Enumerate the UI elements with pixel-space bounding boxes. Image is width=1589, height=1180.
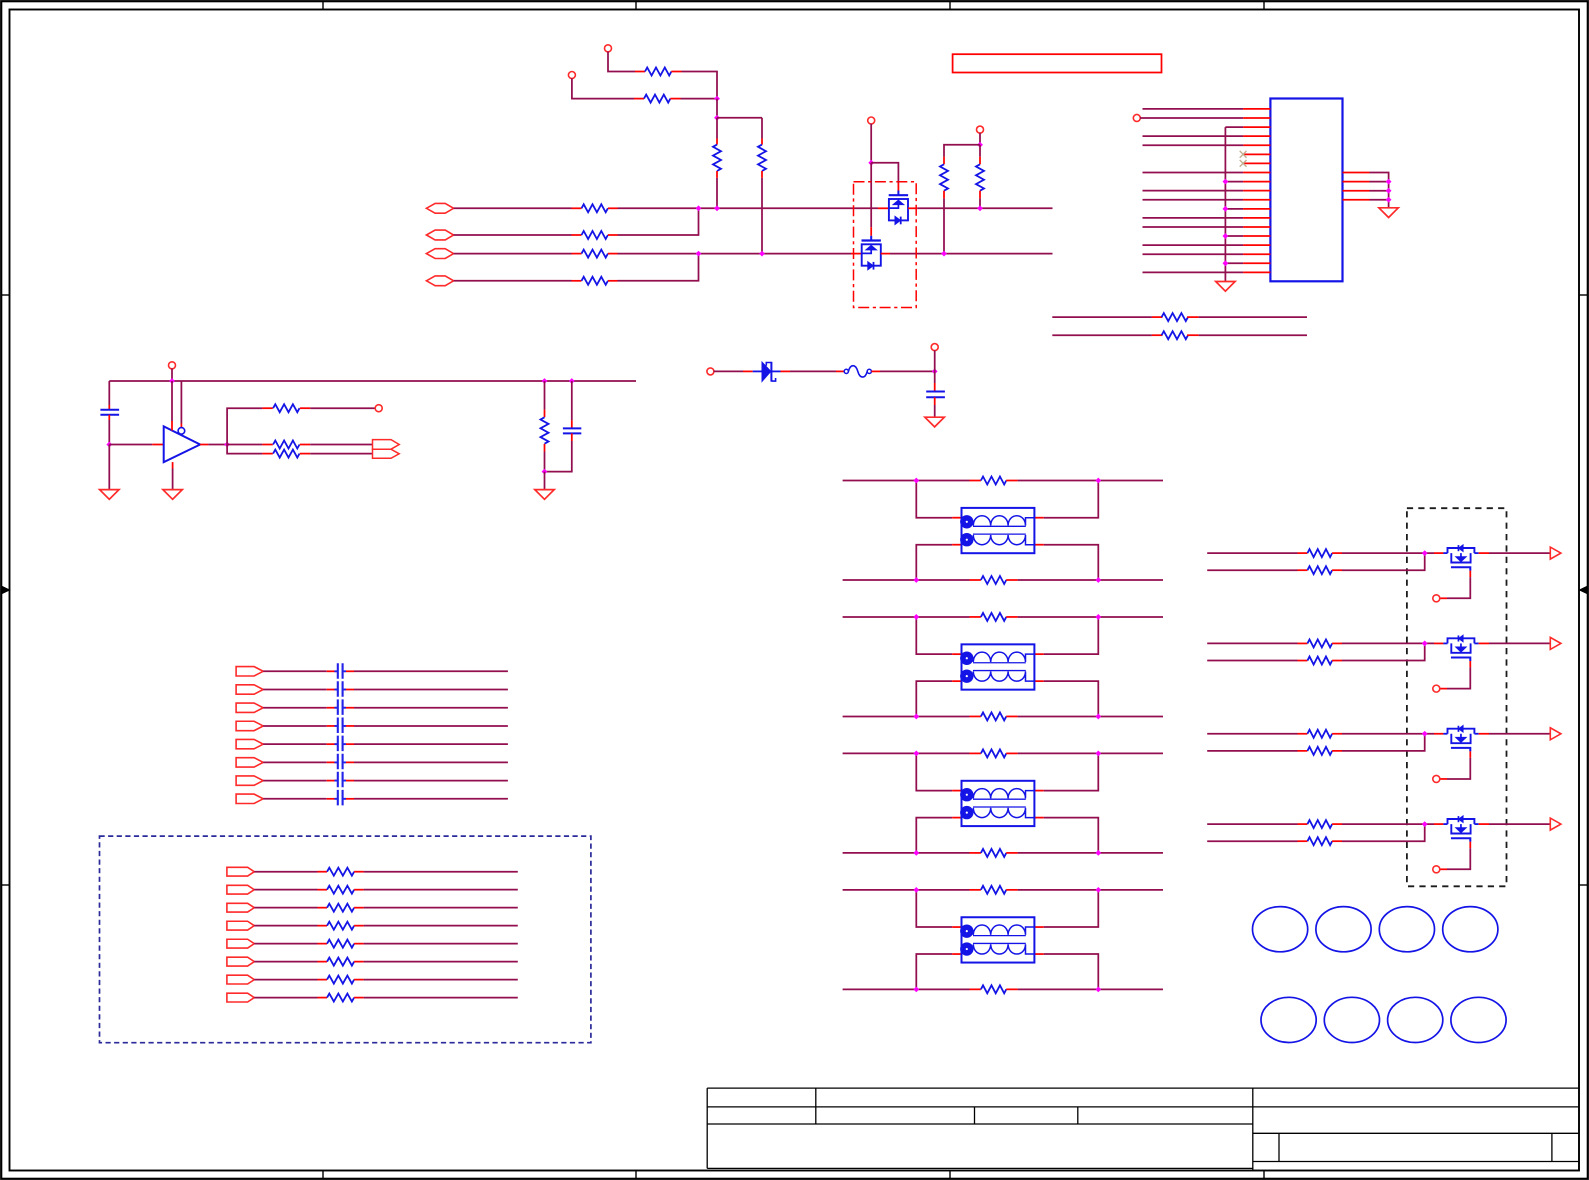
wire branch V2 right xyxy=(717,117,762,119)
wire xfmr3 top rail left xyxy=(843,752,981,754)
junction xfmr1 top left xyxy=(913,478,919,484)
junction out node xyxy=(224,442,230,448)
wire group row 6 right xyxy=(364,961,518,963)
output arrow pair xyxy=(373,440,400,459)
wire RC to ground xyxy=(544,472,546,490)
transistor Q2 xyxy=(862,236,881,270)
wire xfmr2 left bottom rise xyxy=(916,681,961,716)
resistor R12 xyxy=(262,441,310,449)
wire bus row 2 xyxy=(263,689,508,691)
wire J1 right gnd top xyxy=(1370,173,1389,208)
resistor R9 xyxy=(940,157,948,254)
port PG3 xyxy=(1433,775,1440,782)
wire stage3 row A xyxy=(1207,733,1307,735)
wire J1 pin10 xyxy=(1143,190,1244,192)
wire J1 pin19 xyxy=(1143,271,1244,273)
resistor R14 xyxy=(1162,313,1199,321)
wire U1 enable pin xyxy=(180,381,182,428)
resistor RN1 xyxy=(327,868,364,876)
red annotation box xyxy=(953,54,1162,72)
junction xfmr1 top right xyxy=(1095,478,1101,484)
wire in+ node to ground xyxy=(108,445,110,490)
dashed group box xyxy=(100,836,591,1043)
hole H2 xyxy=(1316,907,1371,952)
wire U1 out xyxy=(200,444,227,446)
wire group row 3 left xyxy=(254,907,327,909)
wire rail net1 xyxy=(1052,316,1162,318)
port P8 xyxy=(169,362,176,369)
bus port BP3 xyxy=(236,703,263,712)
wire node V1 down xyxy=(716,99,718,118)
junction xfmr2 top left xyxy=(913,614,919,620)
ground G1 xyxy=(1216,282,1235,292)
wire J1 right gnd 2 xyxy=(1370,181,1389,183)
wire J1 right gnd 3 xyxy=(1370,190,1389,192)
wire group row 3 right xyxy=(364,907,518,909)
junction R10 row A xyxy=(977,205,983,211)
ground G5 xyxy=(535,490,554,500)
wire R1 to node V1 xyxy=(682,72,718,99)
border center arrow right xyxy=(1580,587,1587,594)
output arrow OUT3 xyxy=(1550,728,1561,740)
wire input row C xyxy=(454,253,572,255)
port P5 xyxy=(1133,114,1140,121)
ground G2 xyxy=(1379,208,1398,218)
junction row A x717 xyxy=(714,205,720,211)
junction J1 gnd pin12 xyxy=(1223,206,1229,212)
port P1 xyxy=(605,45,612,52)
dashed box output stage xyxy=(1407,508,1507,886)
junction stage4 xyxy=(1422,821,1428,827)
port P4 xyxy=(977,126,984,133)
wire stage2 gate xyxy=(1440,661,1471,689)
wire rail to C2 xyxy=(108,381,110,410)
wire J1 pin16 xyxy=(1143,244,1244,246)
wire P2 to R2 xyxy=(572,78,634,98)
bus port BP6 xyxy=(236,758,263,767)
wire stage4 output xyxy=(1479,823,1551,825)
resistor RT4a xyxy=(981,886,1018,894)
wire J1 pin17 xyxy=(1143,253,1244,255)
junction RC bottom xyxy=(542,469,548,475)
connector J1 left pins xyxy=(1243,109,1270,272)
wire group row 8 right xyxy=(364,997,518,999)
wire gate to Q2 xyxy=(870,163,872,236)
junction J1 gnd pin15 xyxy=(1223,233,1229,239)
junction right gnd 2 xyxy=(1386,179,1392,185)
wire xfmr4 right bottom rise xyxy=(1034,954,1098,989)
wire J1 pin8 xyxy=(1143,171,1244,173)
wire P4 node to R9 xyxy=(944,145,980,157)
wire P7 to node C xyxy=(934,350,936,371)
resistor RS1b xyxy=(1307,566,1342,574)
wire R13 to arrow xyxy=(310,453,372,455)
port P7 xyxy=(931,344,938,351)
transistor Q3 xyxy=(1443,545,1478,571)
output arrow OUT4 xyxy=(1550,818,1561,830)
resistor R2 xyxy=(634,95,681,103)
border zone ticks right xyxy=(1579,295,1588,885)
resistor RS3a xyxy=(1307,730,1342,738)
wire xfmr2 top rail right xyxy=(1018,616,1163,618)
group port GP6 xyxy=(227,957,254,966)
wire xfmr3 bottom rail right xyxy=(1018,852,1163,854)
wire F1 to node C xyxy=(871,370,934,372)
input port PIND xyxy=(426,276,453,286)
wire bus row 6 xyxy=(263,761,508,763)
wire bus row 8 xyxy=(263,798,508,800)
bus port BP2 xyxy=(236,685,263,694)
junction right gnd 4 xyxy=(1386,197,1392,203)
wire group row 1 left xyxy=(254,871,327,873)
wire group row 1 right xyxy=(364,871,518,873)
transformer T3 xyxy=(960,781,1034,826)
output arrow OUT2 xyxy=(1550,637,1561,649)
wire stage1 output xyxy=(1479,552,1551,554)
junction J1 gnd pin9 xyxy=(1223,179,1229,185)
wire Q2 drain right xyxy=(881,253,1053,255)
wire group row 8 left xyxy=(254,997,327,999)
resistor RT2b xyxy=(981,712,1018,720)
wire xfmr4 right top drop xyxy=(1034,890,1098,927)
wire stage2 output xyxy=(1479,642,1551,644)
wire stage1 B join xyxy=(1342,553,1425,570)
hole H1 xyxy=(1253,907,1308,952)
resistor R5 xyxy=(572,204,618,212)
junction xfmr2 top right xyxy=(1095,614,1101,620)
resistor RT3b xyxy=(981,849,1018,857)
wire P8 to rail xyxy=(171,369,173,382)
wire stage3 row B xyxy=(1207,750,1307,752)
junction xfmr3 top right xyxy=(1095,751,1101,757)
wire stage2 A to Q xyxy=(1342,642,1443,644)
wire stage4 row B xyxy=(1207,840,1307,842)
resistor RN3 xyxy=(327,904,364,912)
wire xfmr4 top rail right xyxy=(1018,889,1163,891)
no-connect J1 pin6 xyxy=(1240,151,1247,158)
bus port BP5 xyxy=(236,739,263,748)
wire stage4 A to Q xyxy=(1342,823,1443,825)
wire xfmr4 bottom rail left xyxy=(843,988,981,990)
resistor R7 xyxy=(572,250,618,258)
bus port BP8 xyxy=(236,794,263,803)
junction J1 gnd pin18 xyxy=(1223,260,1229,266)
group port GP1 xyxy=(227,867,254,876)
junction rail C3 xyxy=(569,378,575,384)
transistor Q6 xyxy=(1443,816,1478,842)
resistor R13 xyxy=(262,450,310,458)
group port GP3 xyxy=(227,903,254,912)
wire U1 vcc pin xyxy=(171,381,173,431)
resistor RT1b xyxy=(981,576,1018,584)
wire stage1 A to Q xyxy=(1342,552,1443,554)
wire rail net1 right xyxy=(1199,316,1307,318)
wire J1 pin13 xyxy=(1143,217,1244,219)
wire stage4 B join xyxy=(1342,824,1425,841)
wire xfmr2 bottom rail left xyxy=(843,715,981,717)
wire stage3 B join xyxy=(1342,734,1425,751)
junction gate node xyxy=(868,160,874,166)
wire group row 2 left xyxy=(254,889,327,891)
junction node V1 xyxy=(714,96,720,102)
junction node V2 xyxy=(714,115,720,121)
input port PINA xyxy=(426,203,453,213)
port P2 xyxy=(568,72,575,79)
fuse F1 xyxy=(844,366,871,377)
wire J1 pin11 xyxy=(1143,199,1244,201)
resistor RN7 xyxy=(327,976,364,984)
transformer T1 xyxy=(960,508,1034,553)
junction rail R16 xyxy=(542,378,548,384)
capacitor C1 xyxy=(926,392,945,398)
hole H4 xyxy=(1443,907,1498,952)
wire xfmr3 right bottom rise xyxy=(1034,818,1098,853)
wire J1 right gnd 4 xyxy=(1370,199,1389,201)
port PG1 xyxy=(1433,595,1440,602)
op-amp U1 xyxy=(164,426,200,462)
wire in+ to U1 xyxy=(109,444,163,446)
resistor RS3b xyxy=(1307,747,1342,755)
wire row B up to row A xyxy=(618,208,699,235)
no-connect J1 pin7 xyxy=(1240,160,1247,167)
input port PINB xyxy=(426,230,453,240)
wire bus row 5 xyxy=(263,743,508,745)
wire xfmr4 top rail left xyxy=(843,889,981,891)
wire xfmr3 left bottom rise xyxy=(916,818,961,853)
output arrow OUT1 xyxy=(1550,547,1561,559)
wire xfmr1 left top drop xyxy=(916,481,961,518)
resistor R11 xyxy=(262,404,310,412)
wire R11 to P9 xyxy=(310,407,375,409)
wire C1 to ground xyxy=(934,397,936,417)
border zone ticks bottom xyxy=(323,1171,1264,1179)
wire group row 4 left xyxy=(254,925,327,927)
wire J1 ground bus xyxy=(1224,127,1226,281)
wire group row 5 left xyxy=(254,943,327,945)
wire J1 pin5 xyxy=(1143,144,1244,146)
wire xfmr3 top rail right xyxy=(1018,752,1163,754)
transistor Q5 xyxy=(1443,726,1478,752)
wire input row A xyxy=(454,207,572,209)
junction in+ node xyxy=(106,442,112,448)
wire xfmr3 bottom rail left xyxy=(843,852,981,854)
resistor RN2 xyxy=(327,886,364,894)
hole H6 xyxy=(1324,997,1379,1042)
wire xfmr2 top rail left xyxy=(843,616,981,618)
wire bus row 4 xyxy=(263,725,508,727)
resistor R10 xyxy=(976,145,984,209)
hole H3 xyxy=(1379,907,1434,952)
ground G3 xyxy=(925,417,944,427)
resistor RS1a xyxy=(1307,549,1342,557)
junction stage2 xyxy=(1422,641,1428,647)
resistor RN8 xyxy=(327,994,364,1002)
junction xfmr4 top right xyxy=(1095,887,1101,893)
junction xfmr4 bottom left xyxy=(913,986,919,992)
wire node C to C1 xyxy=(934,371,936,391)
dashed box mosfet pair xyxy=(854,182,917,308)
wire gate to Q1 xyxy=(871,163,898,191)
junction xfmr4 bottom right xyxy=(1095,986,1101,992)
wire D1 to F1 xyxy=(781,370,845,372)
wire P1 to R1 xyxy=(608,52,635,72)
wire feedback up xyxy=(227,408,262,444)
wire J1 pin4 xyxy=(1143,135,1244,137)
resistor RT3a xyxy=(981,749,1018,757)
wire group row 4 right xyxy=(364,925,518,927)
connector J1 body xyxy=(1270,99,1342,282)
bubble U1 enable xyxy=(178,428,185,435)
wire rail net2 xyxy=(1052,334,1162,336)
ground G6 xyxy=(163,490,182,500)
group port GP4 xyxy=(227,921,254,930)
resistor R4 xyxy=(758,118,766,254)
wire stage3 A to Q xyxy=(1342,733,1443,735)
capacitor C3 xyxy=(545,381,582,472)
junction node C xyxy=(932,369,938,375)
junction stage1 xyxy=(1422,550,1428,556)
junction stage3 xyxy=(1422,731,1428,737)
wire xfmr4 bottom rail right xyxy=(1018,988,1163,990)
wire J1 pin1 xyxy=(1143,108,1244,110)
bus line 1 xyxy=(334,663,337,807)
wire P5 to J1 pin2 xyxy=(1140,117,1243,119)
wire xfmr3 right top drop xyxy=(1034,753,1098,790)
resistor R16 xyxy=(541,381,549,472)
wire P4 down xyxy=(979,133,981,145)
wire group row 6 left xyxy=(254,961,327,963)
wire R2 to node V1 xyxy=(681,98,718,100)
resistor RN5 xyxy=(327,940,364,948)
wire row C to mosfet Q2 xyxy=(618,253,862,255)
port P3 xyxy=(868,117,875,124)
port P6 xyxy=(707,368,714,375)
wire rail net2 right xyxy=(1199,334,1307,336)
junction R9 row C xyxy=(941,251,947,257)
wire J1 pin14 xyxy=(1143,226,1244,228)
wire xfmr2 right top drop xyxy=(1034,617,1098,654)
group port GP2 xyxy=(227,885,254,894)
wire vcc rail xyxy=(109,380,636,382)
transformer T2 xyxy=(960,644,1034,689)
resistor RS4b xyxy=(1307,837,1342,845)
junction xfmr3 bottom left xyxy=(913,850,919,856)
wire stage1 row B xyxy=(1207,569,1307,571)
wire input row D xyxy=(454,280,572,282)
wire xfmr1 right top drop xyxy=(1034,481,1098,518)
wire group row 7 left xyxy=(254,979,327,981)
wire xfmr2 left top drop xyxy=(916,617,961,654)
wire xfmr2 right bottom rise xyxy=(1034,681,1098,716)
group port GP7 xyxy=(227,975,254,984)
resistor R8 xyxy=(572,277,618,285)
resistor RS2b xyxy=(1307,657,1342,665)
wire stub J1 pin18 xyxy=(1225,262,1243,264)
resistor RT4b xyxy=(981,985,1018,993)
resistor RS2a xyxy=(1307,639,1342,647)
hole H8 xyxy=(1451,997,1506,1042)
wire xfmr1 top rail left xyxy=(843,480,981,482)
connector J1 right pins xyxy=(1343,173,1370,200)
wire stage4 row A xyxy=(1207,823,1307,825)
group port GP8 xyxy=(227,993,254,1002)
resistor RN6 xyxy=(327,958,364,966)
capacitor C2 xyxy=(100,410,119,415)
wire Q1 drain right xyxy=(908,207,1053,209)
wire xfmr2 bottom rail right xyxy=(1018,715,1163,717)
junction row A x698 xyxy=(696,205,702,211)
bus port BP7 xyxy=(236,776,263,785)
resistor RT2a xyxy=(981,613,1018,621)
wire xfmr1 top rail right xyxy=(1018,480,1163,482)
junction right gnd 3 xyxy=(1386,188,1392,194)
wire group row 2 right xyxy=(364,889,518,891)
wire xfmr1 left bottom rise xyxy=(916,545,961,580)
hole H5 xyxy=(1261,997,1316,1042)
border zone ticks left xyxy=(1,295,9,885)
wire stage1 row A xyxy=(1207,552,1307,554)
wire out row2 xyxy=(227,445,262,454)
resistor RT1a xyxy=(981,477,1018,485)
diode D1 schottky xyxy=(753,362,781,382)
wire stage2 B join xyxy=(1342,643,1425,660)
resistor R1 xyxy=(635,68,682,76)
wire stage3 output xyxy=(1479,733,1551,735)
wire row D up to row C xyxy=(618,254,699,281)
bus port BP1 xyxy=(236,667,263,676)
wire J1 pin3 stub xyxy=(1225,126,1243,128)
transistor Q1 xyxy=(889,191,908,225)
wire R12 to arrow xyxy=(310,444,372,446)
wire U1 vee to ground xyxy=(172,462,174,490)
resistor R15 xyxy=(1162,331,1199,339)
wire xfmr1 bottom rail right xyxy=(1018,579,1163,581)
junction P4 node xyxy=(977,142,983,148)
junction xfmr3 bottom right xyxy=(1095,850,1101,856)
wire group row 7 right xyxy=(364,979,518,981)
wire xfmr4 left bottom rise xyxy=(916,954,961,989)
wire bus row 1 xyxy=(263,670,508,672)
resistor R3 xyxy=(713,118,721,209)
group port GP5 xyxy=(227,939,254,948)
wire stage1 gate xyxy=(1440,571,1471,599)
junction rail P8 xyxy=(169,378,175,384)
junction xfmr3 top left xyxy=(913,751,919,757)
junction row C x698 xyxy=(696,251,702,257)
port P9 xyxy=(375,405,382,412)
ground G4 xyxy=(100,490,119,500)
junction xfmr1 bottom left xyxy=(913,577,919,583)
transistor Q4 xyxy=(1443,635,1478,661)
junction xfmr4 top left xyxy=(913,887,919,893)
wire stub J1 pin15 xyxy=(1225,235,1243,237)
resistor RS4a xyxy=(1307,820,1342,828)
wire row A to mosfet Q1 xyxy=(618,207,889,209)
wire stage4 gate xyxy=(1440,842,1471,870)
border center arrow left xyxy=(2,587,9,594)
junction row C x762 xyxy=(759,251,765,257)
junction xfmr1 bottom right xyxy=(1095,577,1101,583)
port PG4 xyxy=(1433,866,1440,873)
wire C2 to in+ node xyxy=(108,415,110,445)
wire bus row 7 xyxy=(263,780,508,782)
wire group row 5 right xyxy=(364,943,518,945)
title block xyxy=(707,1088,1578,1170)
wire xfmr1 right bottom rise xyxy=(1034,545,1098,580)
bus line 2 xyxy=(343,663,346,807)
wire input row B xyxy=(454,234,572,236)
wire P6 to D1 xyxy=(714,370,753,372)
